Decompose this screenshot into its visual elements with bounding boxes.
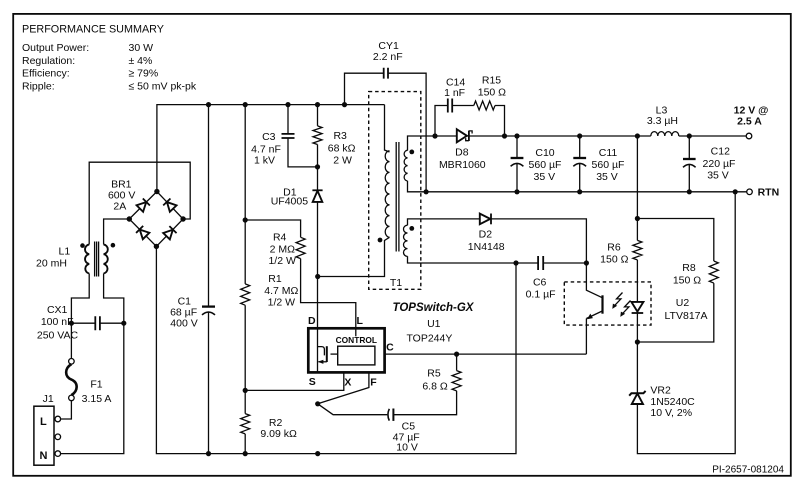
capacitor CX1 100 nF 250 VAC [37,304,124,342]
svg-text:1 kV: 1 kV [254,155,275,167]
svg-text:TOPSwitch-GX: TOPSwitch-GX [393,302,475,314]
svg-text:L1: L1 [59,246,71,258]
svg-text:MBR1060: MBR1060 [439,159,486,171]
wire: C3 top lead [287,105,289,134]
wire: secondary winding top lead and 12V rail to output [408,136,747,151]
capacitor C12 220 uF 35 V [683,146,735,182]
svg-text:250 VAC: 250 VAC [37,330,79,342]
wire: C1 top lead from DC bus [208,105,210,307]
resistor R6 150 Ohm [600,240,642,265]
wire: 12V rail tap down to R6 R8 node [636,136,638,240]
wire: feedback node through VR2 loop to RTN rail [637,192,735,454]
diode D1 UF4005 [271,187,323,208]
svg-text:150 Ω: 150 Ω [600,253,628,265]
svg-text:X: X [344,377,351,389]
wire: U1 X pin to R1 R2 node [245,365,344,391]
svg-text:TOP244Y: TOP244Y [406,333,452,345]
svg-text:Output Power:: Output Power: [22,42,89,54]
capacitor C10 560 uF 35 V [511,147,562,183]
optocoupler U2 light arrows [612,293,630,317]
optocoupler U2 dashed boundary box [564,282,651,325]
wire: DC bus down through R1 chain upper lead [244,105,246,284]
svg-text:PERFORMANCE SUMMARY: PERFORMANCE SUMMARY [22,24,164,36]
svg-text:150 Ω: 150 Ω [673,275,701,287]
wire: C3 bottom lead to clamp node [288,138,318,167]
optocoupler U2 LED [631,297,707,322]
svg-text:4.7 nF: 4.7 nF [251,143,281,155]
wire: U1 C pin wire to optocoupler emitter [375,353,587,355]
wire: drain node to primary winding bottom [318,237,390,276]
svg-text:LTV817A: LTV817A [665,310,708,322]
svg-text:1N4148: 1N4148 [468,241,505,253]
wire: CY1 left lead from DC bus node [345,73,384,104]
capacitor C11 560 uF 35 V [573,147,624,183]
resistor R4 2 MOhm 1/2 W [268,232,305,267]
capacitor C5 47 uF 10 V [388,409,420,454]
svg-text:30 W: 30 W [129,42,154,54]
resistor R5 6.8 Ohm [422,368,461,393]
wire: L1 right winding bottom to CX1 right node [104,274,124,324]
svg-text:R8: R8 [682,262,696,274]
svg-text:C11: C11 [599,147,618,159]
wire: secondary winding bottom lead and RTN rail to output [408,181,747,192]
svg-text:10 V: 10 V [396,442,418,454]
svg-text:N: N [40,450,48,462]
capacitor C1 68 uF 400 V [170,295,215,329]
svg-text:1/2 W: 1/2 W [268,255,296,267]
svg-text:2A: 2A [113,201,126,213]
svg-text:2 W: 2 W [333,154,352,166]
svg-text:Regulation:: Regulation: [22,55,75,67]
svg-text:1/2 W: 1/2 W [268,296,296,308]
svg-text:F1: F1 [90,379,102,391]
wire: L1 left winding top to BR1 right vertex [89,162,190,244]
wire: LED cathode down to feedback node [636,313,638,342]
svg-text:C12: C12 [711,146,730,158]
svg-text:D8: D8 [455,147,469,159]
svg-text:35 V: 35 V [707,169,729,181]
wire: C14 to R15 [453,105,474,107]
svg-text:1N5240C: 1N5240C [650,396,695,408]
svg-text:560 µF: 560 µF [529,159,562,171]
svg-text:J1: J1 [43,393,54,405]
svg-text:2 MΩ: 2 MΩ [270,244,296,256]
wire: S node diagonal to C5 left plate [318,404,388,415]
svg-text:CX1: CX1 [47,304,68,316]
svg-text:C: C [386,342,394,354]
svg-text:6.8 Ω: 6.8 Ω [422,381,448,393]
svg-text:35 V: 35 V [596,171,618,183]
svg-text:R3: R3 [333,130,347,142]
svg-text:3.3 µH: 3.3 µH [647,115,678,127]
svg-text:10 V, 2%: 10 V, 2% [650,407,692,419]
svg-text:3.15 A: 3.15 A [82,393,112,405]
svg-text:1 nF: 1 nF [444,87,465,99]
svg-text:0.1 µF: 0.1 µF [526,289,556,301]
zener VR2 1N5240C 10 V 2% [629,385,695,420]
wire: L1 left winding bottom to CX1 left node [71,274,89,324]
svg-text:Ripple:: Ripple: [22,80,55,92]
wire: optocoupler emitter down to C pin wire [585,319,587,355]
diode D8 MBR1060 schottky [439,129,486,171]
svg-text:≤ 50 mV pk-pk: ≤ 50 mV pk-pk [129,80,197,92]
svg-text:R6: R6 [607,242,621,254]
inductor L3 3.3 uH [647,104,679,136]
wire: R5 bottom to C5 right plate [394,391,457,415]
svg-text:C3: C3 [262,131,276,143]
wire: C11 leads [579,136,581,192]
capacitor CY1 2.2 nF [373,40,403,78]
capacitor C6 0.1 uF [526,256,556,301]
svg-text:L: L [356,315,363,327]
svg-text:CONTROL: CONTROL [336,335,377,345]
wire: C1 bottom lead to ground bus [208,313,210,454]
svg-text:20 mH: 20 mH [36,258,67,270]
transformer T1 [378,105,415,289]
wire: drain node down to U1 D pin [317,277,319,331]
optocoupler U2 LTV817A phototransistor [586,282,602,319]
capacitor C14 1 nF [444,76,465,112]
wire: BR1 bottom vertex down, primary ground bus, up to bias return node [156,246,516,453]
svg-text:2.2 nF: 2.2 nF [373,51,403,63]
svg-text:9.09 kΩ: 9.09 kΩ [260,428,297,440]
wire: J1 pin N to CX1 right node [61,323,124,453]
wire: C12 leads [688,136,690,192]
svg-text:4.7 MΩ: 4.7 MΩ [264,285,298,297]
wire: R6 bottom to LED [636,260,638,302]
svg-text:U1: U1 [427,318,441,330]
resistor R1 4.7 MOhm 1/2 W [241,273,299,308]
wire: bias winding top lead through D2 to optocoupler collector [408,219,587,282]
resistor R3 68 kOhm 2 W [313,126,356,166]
wire: U1 F pin diagonal to S node [318,365,369,404]
svg-text:68 kΩ: 68 kΩ [328,143,356,155]
svg-text:VR2: VR2 [650,385,671,397]
diode D2 1N4148 [468,214,505,253]
svg-text:U2: U2 [676,297,690,309]
wire: R5 top lead [456,354,458,371]
svg-text:150 Ω: 150 Ω [478,87,506,99]
node: RTN output terminal [747,187,779,199]
wire: L1 right winding top to BR1 left vertex [104,219,130,245]
wire: R3 leads [317,105,319,167]
wire: R15 right lead down to D8 cathode node [495,106,505,137]
performance summary text block [22,24,197,93]
svg-text:100 nF: 100 nF [41,316,74,328]
TOPSwitch U1 TOP244Y [308,315,394,388]
svg-text:R15: R15 [482,74,501,86]
wire: F1 bottom to J1 pin L [61,401,72,419]
capacitor C3 4.7 nF 1 kV [251,131,294,167]
wire: CX1 left node down to fuse F1 [70,323,72,358]
svg-text:S: S [309,376,316,388]
svg-text:F: F [370,376,377,388]
svg-text:L: L [40,416,47,428]
svg-text:2.5 A: 2.5 A [737,115,762,127]
svg-text:UF4005: UF4005 [271,196,309,208]
svg-text:T1: T1 [390,277,402,289]
svg-text:RTN: RTN [758,187,780,199]
svg-text:C10: C10 [535,147,554,159]
node: 12 V output terminal [734,105,769,139]
wire: bias winding bottom lead, C6 node, to D2 cathode node [408,256,587,263]
wire: CY1 right lead down to secondary return rail [388,73,426,192]
wire: R8 bottom to feedback node [637,283,713,342]
wire: R4 branch from R1 chain node [245,220,300,237]
bridge rectifier BR1 600 V 2A [108,179,183,247]
fuse F1 3.15 A [66,359,111,406]
connector J1 [34,393,61,465]
svg-text:560 µF: 560 µF [592,159,625,171]
svg-text:R5: R5 [427,368,441,380]
wire: AC top bus from BR1 top to primary winding top lead [157,105,385,192]
wire: C14 left lead [435,106,447,137]
svg-text:220 µF: 220 µF [703,158,736,170]
svg-text:≥ 79%: ≥ 79% [129,68,159,80]
wire: C10 leads [516,136,518,192]
svg-text:35 V: 35 V [533,171,555,183]
wire: R2 bottom to ground bus [244,434,246,454]
resistor R15 150 Ohm [474,74,506,110]
transformer T1 dashed boundary box [369,92,421,290]
resistor R8 150 Ohm [673,261,718,287]
svg-text:R4: R4 [273,232,287,244]
wire: R1 bottom to X-pin node [244,305,246,413]
common-mode choke L1 20 mH [36,242,115,277]
svg-text:400 V: 400 V [170,318,197,330]
svg-text:PI-2657-081204: PI-2657-081204 [712,465,784,476]
svg-text:R1: R1 [268,273,282,285]
resistor R2 9.09 kOhm [241,414,297,441]
wire: R4 bottom to L pin of U1 [301,259,356,329]
svg-text:C6: C6 [533,277,547,289]
svg-text:D: D [308,315,316,327]
svg-text:± 4%: ± 4% [129,55,153,67]
svg-text:Efficiency:: Efficiency: [22,68,70,80]
wire: D1 leads clamp node to drain node [317,167,319,277]
wire: R8 branch [637,219,713,262]
svg-text:D2: D2 [479,229,493,241]
